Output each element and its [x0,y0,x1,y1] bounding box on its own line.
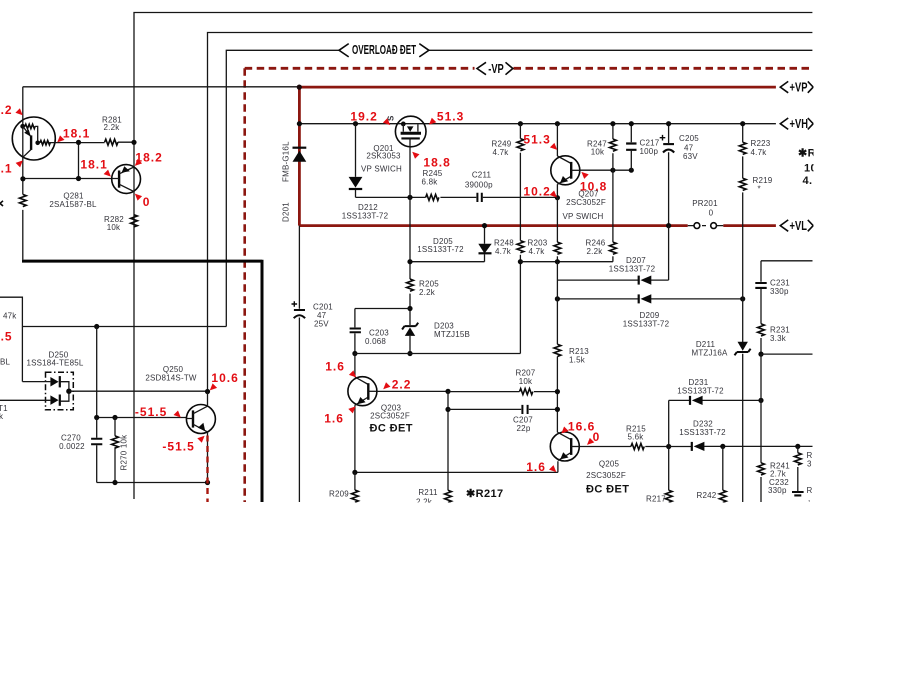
junction C203 bottom [352,351,357,356]
junction C207 right [555,407,560,412]
junction drain on y197.4 [407,195,412,200]
label fragment right bottom [807,486,813,503]
svg-text:39000p: 39000p [465,180,493,189]
wire C205 to D207 [668,226,670,281]
svg-text:R270 10k: R270 10k [120,434,129,471]
junction R247 top [610,121,615,126]
svg-text:.1: .1 [1,161,13,175]
svg-text:51.3: 51.3 [523,133,550,147]
svg-text:R219: R219 [753,176,773,185]
transistor Q203 [348,354,413,473]
junction R205 bottom [407,306,412,311]
resistor R248 [494,238,524,261]
junction C217 bottom corner [629,168,634,173]
svg-text:25V: 25V [314,320,329,329]
junction R247 bottom [610,168,615,173]
svg-text:100p: 100p [640,147,659,156]
wire y326 [22,326,226,328]
svg-text:22p: 22p [517,424,531,433]
wire Q203 base row [377,390,448,392]
capacitor C203 [350,328,390,346]
junction emitter row [76,140,81,145]
resistor R215 [580,424,669,449]
junction Q207 emitter [555,195,560,200]
diode D232 [669,419,813,451]
resistor (left, on x23) [19,194,26,206]
svg-text:1.6: 1.6 [526,460,546,474]
zener D211 [691,299,750,502]
junction R270 bottom [112,480,117,485]
svg-text:MTZJ15B: MTZJ15B [434,330,470,339]
svg-text:18.1: 18.1 [80,157,107,171]
svg-text:VP SWICH: VP SWICH [361,165,402,174]
wire +VL red rail [299,224,776,227]
resistor R217 [646,490,672,503]
svg-text:R217: R217 [646,495,666,504]
junction R203 bottom [555,259,560,264]
annotation 1.6 (Q203 bottom) [324,406,355,425]
node OVERLOAD DET flag [339,43,429,57]
svg-text:10k: 10k [107,223,121,232]
capacitor C207 [448,405,557,433]
jumper PR201 [688,199,724,229]
svg-text:1.5k: 1.5k [569,356,586,365]
junction R231 bottom [758,352,763,357]
resistor R205 [407,279,440,297]
svg-text:47: 47 [317,311,327,320]
svg-text:-VP: -VP [488,63,504,77]
resistor R249 [492,124,524,241]
annotation 51.3 (Q207) [523,133,557,150]
node +VH flag [780,118,813,132]
node +VP flag [780,81,813,95]
resistor R242 [697,446,727,502]
svg-text:D201: D201 [282,202,291,222]
wire Q203 emitter row y472.4 [355,461,558,472]
resistor R281 [102,115,134,145]
svg-text:ĐC ĐET: ĐC ĐET [370,423,413,435]
svg-text:PR201: PR201 [692,199,718,208]
junction x23 base [20,176,25,181]
junction C205 on +VL [666,223,671,228]
svg-text:0.0022: 0.0022 [59,442,85,451]
annotation 51.3 (Q201) [429,109,464,124]
junction D205 on +VL [482,223,487,228]
wire x668.7 D231 branch [668,400,670,490]
junction D212 top [353,121,358,126]
svg-text:R223: R223 [751,139,771,148]
junction C217 top [629,121,634,126]
resistor R207 [448,369,557,395]
wire base row y178.5 [23,178,112,180]
wire x78.5 stub [78,142,80,178]
svg-text:3.3k: 3.3k [770,334,787,343]
capacitor C232 [768,478,804,496]
transistor Q201 MOSFET [361,115,426,174]
svg-text:+VH: +VH [790,118,808,132]
svg-text:4.7k: 4.7k [493,148,510,157]
junction R207 right [555,389,560,394]
annotation 18.1 upper [57,127,90,143]
svg-text:2.2k: 2.2k [419,288,436,297]
svg-text:1SS133T-72: 1SS133T-72 [609,264,656,273]
diode D207 [557,256,668,285]
annotation 18.8 [412,152,451,170]
diode D250 dual in dash-dot box [0,350,208,409]
resistor R245 [422,169,443,201]
svg-text:2SD814S-TW: 2SD814S-TW [145,374,197,383]
svg-text:1SS133T-72: 1SS133T-72 [679,428,726,437]
svg-text:2SA1587-BL: 2SA1587-BL [49,200,97,209]
annotation 2.2 [383,378,411,392]
junction R249 top [518,121,523,126]
annotation 18.1 lower [80,157,110,176]
svg-text:10.8: 10.8 [580,180,607,194]
svg-text:10.6: 10.6 [211,371,238,385]
svg-text:63V: 63V [683,152,698,161]
junction +VH on D201 line [297,121,302,126]
svg-text:1.6: 1.6 [325,360,345,374]
wire y353.5 row [355,262,521,354]
diode D231 [669,378,761,405]
wire y261.7 right segment [520,261,613,263]
svg-text:47k: 47k [3,311,17,320]
transistor Q207 [551,124,606,221]
wire top bus 2 [208,33,813,392]
junction base row x448 [445,389,450,394]
resistor R231 [758,324,791,354]
svg-text:51.3: 51.3 [437,109,464,123]
resistor R246 [586,238,617,261]
wire D201 red vertical [298,87,301,226]
capacitor C205 [660,124,700,226]
svg-text:10k: 10k [519,377,533,386]
svg-text:VP SWICH: VP SWICH [562,212,603,221]
wire drain down [409,147,411,354]
wire x96.7 down [96,327,98,418]
junction R223 top [740,121,745,126]
wire y197.4 row [356,196,558,198]
junction D250 wire / Q250 collector [205,389,210,394]
resistor fragment right edge [794,446,812,491]
zener D203 [402,322,470,340]
svg-text:0: 0 [709,209,714,218]
svg-text:2.2: 2.2 [392,378,412,392]
svg-text:ĐC ĐET: ĐC ĐET [586,484,629,496]
wire D205 branch [410,226,485,262]
label fragment right *R note [798,147,822,187]
svg-text:1SS133T-72: 1SS133T-72 [417,245,464,254]
wire black to +VP corner [23,86,300,88]
resistor R282 [104,215,137,233]
wire red dashed overlay Q250 emitter [206,436,208,503]
diode D209 [557,294,742,328]
wire thick rail bottom-left [22,260,262,502]
svg-text:1SS133T-72: 1SS133T-72 [623,319,670,328]
svg-text:R209: R209 [329,490,349,499]
wire left corner y297 [0,297,22,381]
wire +VP red rail [299,86,776,89]
svg-text:,: , [808,494,810,503]
svg-text:1SS133T-72: 1SS133T-72 [342,211,389,220]
svg-text:C231: C231 [770,278,790,287]
svg-text:MTZJ16A: MTZJ16A [691,349,728,358]
resistor R223 [739,124,770,179]
junction +VP corner [297,85,302,90]
annotation 16.6 [561,420,595,434]
svg-text:-51.5: -51.5 [135,405,167,419]
annotation 1.6 (Q203 top) [325,360,356,378]
svg-text:.2: .2 [1,103,13,117]
svg-text:0: 0 [143,195,151,209]
svg-text:2SC3052F: 2SC3052F [370,412,410,421]
svg-text:0.068: 0.068 [365,337,386,346]
svg-text:2SC3052F: 2SC3052F [586,471,626,480]
svg-text:-51.5: -51.5 [162,440,194,454]
resistor R209 [329,472,358,502]
junction D203 bottom [407,351,412,356]
junction Q250 emitter bottom [205,480,210,485]
wire bottom row y482.5 [97,482,208,484]
resistor R213 [554,344,589,364]
junction C270 top [94,415,99,420]
annotation -51.5 lower [162,436,204,454]
svg-text:*: * [758,185,761,194]
annotation 19.2 [350,109,390,125]
resistor R211 [416,488,451,506]
svg-text:6.8k: 6.8k [422,178,439,187]
junction Q207 base top [555,121,560,126]
transistor Q250 [145,365,215,482]
svg-text:C205: C205 [679,134,699,143]
junction R215 right [666,444,671,449]
wire y354.1 to edge [761,353,813,355]
capacitor C270 [59,418,102,483]
wire Q207 emitter to R203 [556,198,558,242]
wire -VP dashed rail horizontal [245,67,810,70]
annotation 10.2 [523,185,556,199]
svg-text:16.6: 16.6 [568,420,595,434]
svg-text:4.7k: 4.7k [751,148,768,157]
transistor Q281 [49,165,140,209]
transistor Q281 input (big circle with internal resistors) [12,117,104,160]
svg-text:2.2k: 2.2k [104,123,121,132]
capacitor C201 [292,301,334,328]
junction D231 right [758,398,763,403]
svg-text:4.7k: 4.7k [495,247,512,256]
svg-text:2.2k: 2.2k [587,247,604,256]
resistor R241 [758,462,791,503]
wire left vertical x23 upper [22,87,24,260]
svg-text:3: 3 [807,460,812,469]
wire Q207 collector row [580,169,631,171]
wire C203 row [355,309,410,354]
wire x761 lower [760,354,762,463]
diode D212 [342,124,389,221]
junction R270 top [112,415,117,420]
svg-text:1SS133T-72: 1SS133T-72 [677,386,724,395]
capacitor C217 [626,124,660,171]
annotation .1 [1,160,23,175]
junction base row [76,176,81,181]
wire x448 down [447,391,449,490]
annotation 10.8 [580,172,607,194]
junction R242 top [720,444,725,449]
annotation 1.6 (Q205) [526,460,556,474]
svg-text:2SC3052F: 2SC3052F [566,198,606,207]
svg-text:330p: 330p [770,287,789,296]
annotation 0 (Q205) [587,430,600,445]
svg-text:C211: C211 [472,171,492,180]
annotation 18.2 [135,151,163,166]
svg-text:OVERLOAĐ ĐET: OVERLOAĐ ĐET [352,43,416,57]
svg-text:✱R217: ✱R217 [466,488,504,500]
junction D209 left [555,296,560,301]
svg-text:R211: R211 [418,488,438,497]
diode D205 [417,237,491,254]
svg-text:BL: BL [0,357,11,366]
svg-text:R242: R242 [697,491,717,500]
junction R248 bottom [518,259,523,264]
svg-text:2SK3053: 2SK3053 [366,152,401,161]
junction C205 top [666,121,671,126]
annotation 10.6 [210,371,239,391]
capacitor C231 [755,261,812,324]
junction D209 right [740,296,745,301]
svg-text:10k: 10k [591,148,605,157]
transistor Q205 [550,432,629,496]
bottom crop mask [0,503,912,684]
svg-text:+VL: +VL [790,219,807,233]
svg-text:+VP: +VP [790,81,808,95]
svg-text:1.6: 1.6 [324,412,344,426]
wire +VH bus [299,123,776,125]
annotation .2 [1,103,23,117]
svg-text:FMB-G16L: FMB-G16L [282,141,291,182]
wire OVERLOAD DET bus [226,50,812,326]
annotation -51.5 upper [135,405,181,419]
svg-text:4.7k: 4.7k [529,247,546,256]
junction emitter row left [352,470,357,475]
wire R246 feed [612,170,614,242]
node -VP flag [477,62,513,76]
right crop mask [814,0,912,684]
wire top bus 1 [134,13,812,500]
svg-text:C217: C217 [640,138,660,147]
wire Q205 base spine [556,262,558,433]
svg-text:1SS184-TE85L: 1SS184-TE85L [26,359,83,368]
junction y326-C270 branch [94,324,99,329]
svg-text:18.1: 18.1 [63,127,90,141]
resistor R270 [112,418,129,483]
svg-text:4.: 4. [803,175,813,187]
resistor R247 [587,124,616,171]
resistor R203 [528,238,561,261]
wire C201 line below VL corner [298,226,300,502]
wire -VP dashed rail vertical [243,68,246,502]
junction x797.8 top [795,444,800,449]
junction drain row left [407,259,412,264]
svg-text:5.6k: 5.6k [628,433,645,442]
svg-text:.5: .5 [1,330,13,344]
node +VL flag [780,219,813,233]
wire Q250 base row [97,417,187,419]
svg-text:330p: 330p [768,486,787,495]
svg-text:10.2: 10.2 [523,185,550,199]
capacitor C211 [465,171,493,202]
svg-text:18.8: 18.8 [423,156,450,170]
tiny left-edge mark [0,201,3,206]
svg-text:Q205: Q205 [599,460,620,469]
junction C207 row x448 [445,407,450,412]
junction R281 right [131,140,136,145]
diode D201 [282,141,307,222]
resistor R219 [739,176,772,299]
annotation 0 (Q281) [135,194,151,209]
svg-text:19.2: 19.2 [350,109,377,123]
